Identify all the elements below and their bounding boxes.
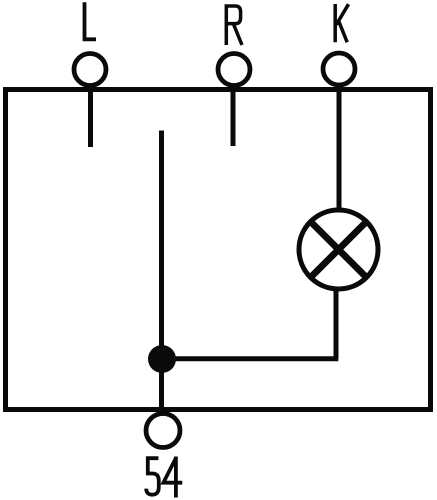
wire from lamp down to horizontal run bbox=[334, 290, 339, 360]
vertical wire from upper stub through junction to terminal 54 bbox=[159, 131, 164, 413]
terminal 54 bbox=[146, 414, 180, 448]
indicator lamp (circle with X) bbox=[299, 210, 378, 289]
terminal L label "L" bbox=[85, 2, 97, 39]
wire stub from terminal R into box bbox=[231, 90, 236, 146]
terminal R label "R" bbox=[226, 6, 242, 45]
horizontal wire from junction to lamp branch bbox=[160, 356, 338, 361]
wire from terminal K down to lamp bbox=[337, 89, 342, 209]
terminal K bbox=[323, 53, 355, 85]
wire stub from terminal L into box bbox=[88, 90, 93, 147]
terminal R bbox=[218, 54, 250, 86]
terminal 54 label "5" bbox=[146, 458, 159, 495]
junction node (solder dot) bbox=[148, 345, 176, 373]
terminal L bbox=[74, 54, 106, 86]
device outline box bbox=[6, 90, 431, 410]
terminal 54 label "4" bbox=[163, 457, 182, 498]
terminal K label "K" bbox=[335, 4, 348, 42]
